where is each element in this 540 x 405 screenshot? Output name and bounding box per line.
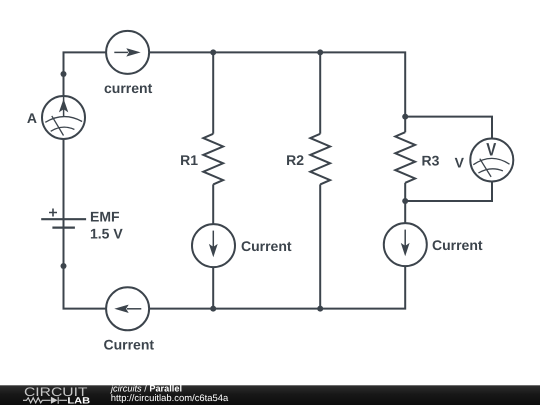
current meter top (horizontal, arrow right) xyxy=(106,31,149,74)
wire R1 branch lower xyxy=(212,184,214,308)
svg-text:R1: R1 xyxy=(180,152,198,168)
svg-text:LAB: LAB xyxy=(67,395,90,405)
wire voltmeter loop xyxy=(405,117,492,201)
svg-text:A: A xyxy=(27,110,37,126)
logo resistor zigzag + diode xyxy=(23,397,67,404)
svg-text:EMF: EMF xyxy=(90,209,120,225)
voltmeter V xyxy=(470,139,513,182)
svg-text:http://circuitlab.com/c6ta54a: http://circuitlab.com/c6ta54a xyxy=(111,393,229,404)
node R2 top xyxy=(317,49,323,55)
node R2 bottom xyxy=(317,306,323,312)
resistor R3 xyxy=(395,132,415,183)
node R1 bottom xyxy=(210,306,216,312)
node R3 bottom xyxy=(402,198,408,204)
svg-text:R3: R3 xyxy=(422,153,440,169)
svg-text:V: V xyxy=(486,140,496,160)
node R1 top xyxy=(210,49,216,55)
resistor R2 xyxy=(310,134,330,185)
current meter bottom (horizontal, arrow left) xyxy=(106,287,149,330)
resistor R1 xyxy=(203,134,223,185)
svg-text:R2: R2 xyxy=(286,152,304,168)
battery V1 (EMF) xyxy=(41,209,86,228)
current source below R1 (arrow down) xyxy=(192,224,235,267)
wire R2 branch lower xyxy=(319,184,321,308)
wire R1 branch upper xyxy=(212,52,214,133)
wire main loop: R3 lower + bottom rail + left rail + top rail + R3 upper xyxy=(64,52,406,308)
svg-text:Current: Current xyxy=(241,238,292,254)
node R3 top xyxy=(402,114,408,120)
svg-text:jcircuits / Parallel: jcircuits / Parallel xyxy=(109,383,182,393)
wire R2 branch upper xyxy=(319,52,321,133)
ammeter A1 xyxy=(42,96,85,139)
footer bar xyxy=(0,383,540,405)
svg-text:Current: Current xyxy=(432,237,483,253)
svg-text:V: V xyxy=(455,155,465,171)
current source below R3 (arrow down) xyxy=(384,223,427,266)
node below battery xyxy=(61,263,67,269)
svg-text:Current: Current xyxy=(104,337,155,353)
node below top-left corner xyxy=(61,71,67,77)
svg-text:1.5 V: 1.5 V xyxy=(90,226,123,242)
svg-text:current: current xyxy=(104,80,153,96)
